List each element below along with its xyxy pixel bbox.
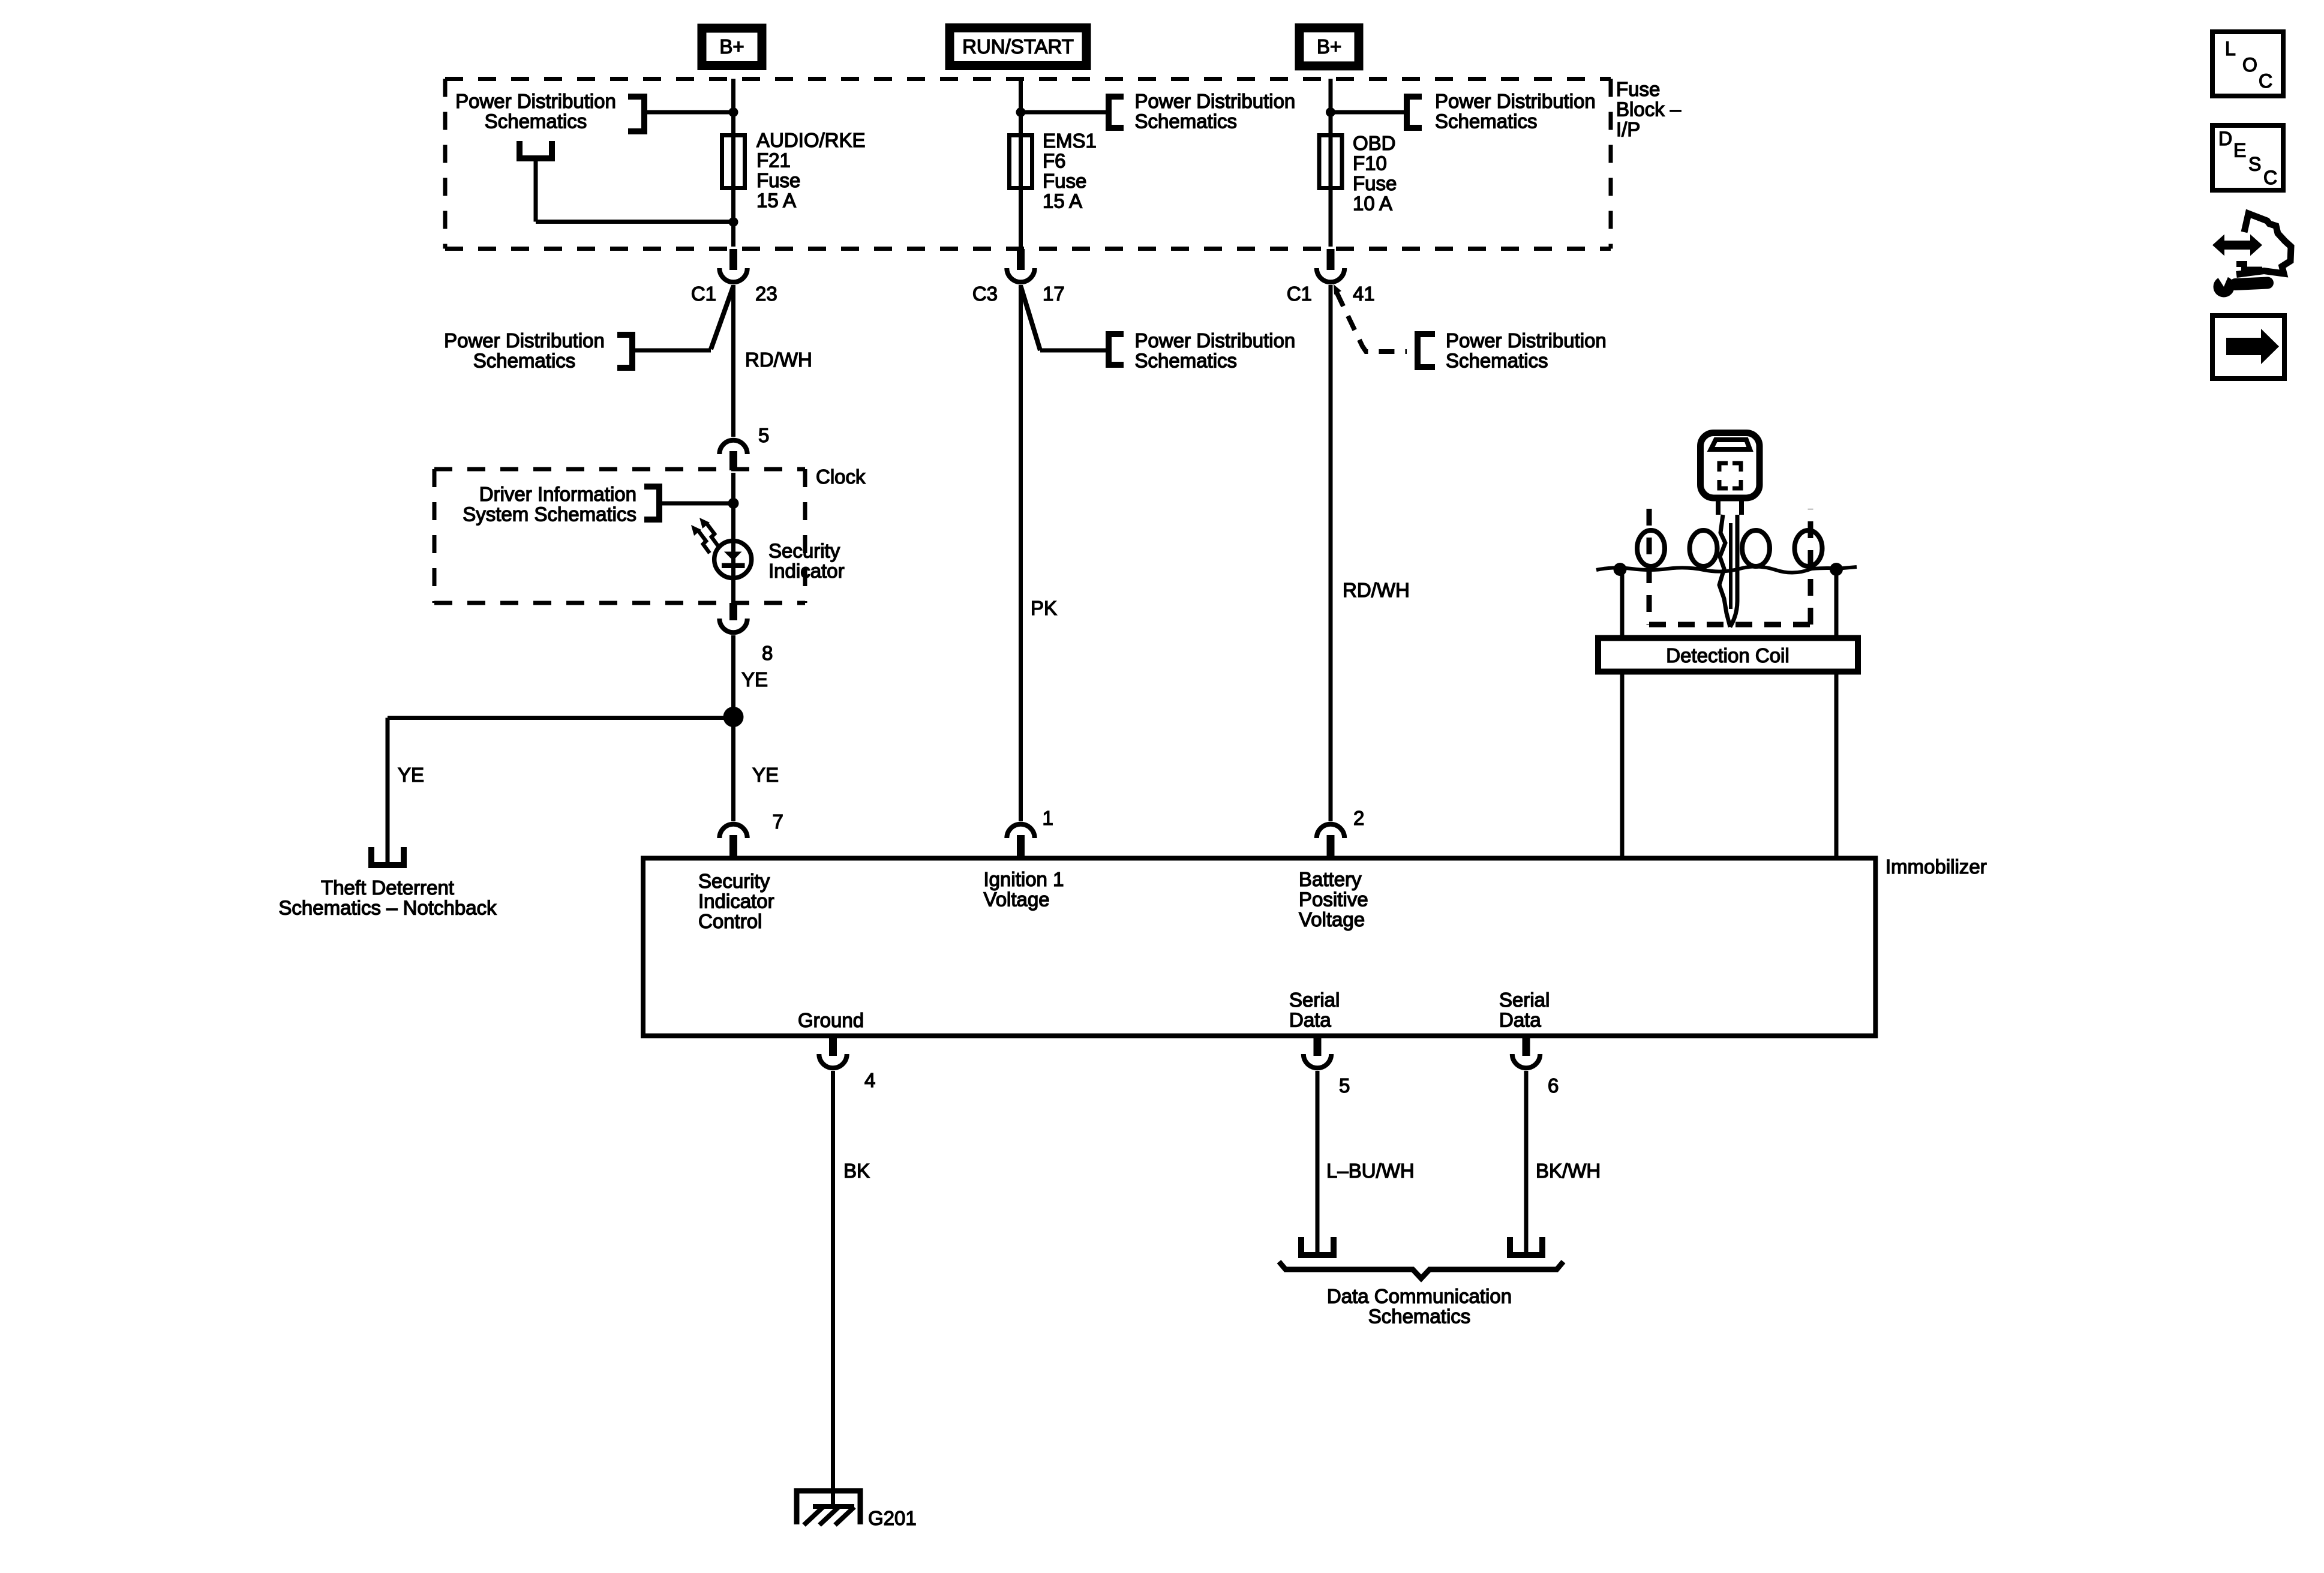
svg-text:Data: Data: [1499, 1009, 1541, 1031]
svg-text:F21: F21: [756, 149, 791, 172]
svg-text:I/P: I/P: [1616, 118, 1640, 140]
svg-text:Schematics: Schematics: [473, 350, 576, 372]
svg-text:OBD: OBD: [1353, 132, 1396, 154]
svg-text:Schematics: Schematics: [1135, 110, 1238, 133]
svg-text:Fuse: Fuse: [1353, 172, 1397, 194]
svg-text:Power Distribution: Power Distribution: [1446, 329, 1607, 352]
svg-text:Ground: Ground: [798, 1009, 864, 1031]
svg-text:4: 4: [864, 1069, 875, 1091]
svg-text:AUDIO/RKE: AUDIO/RKE: [756, 129, 866, 151]
svg-text:Security: Security: [698, 870, 770, 892]
svg-text:Schematics: Schematics: [1446, 350, 1548, 372]
svg-text:Clock: Clock: [816, 466, 866, 488]
svg-text:F10: F10: [1353, 152, 1387, 175]
svg-text:D: D: [2218, 128, 2232, 149]
svg-text:RD/WH: RD/WH: [745, 349, 812, 371]
svg-text:Control: Control: [698, 910, 762, 932]
svg-text:Theft Deterrent: Theft Deterrent: [321, 876, 454, 899]
svg-text:15 A: 15 A: [756, 190, 796, 212]
svg-text:Power Distribution: Power Distribution: [1135, 90, 1296, 112]
svg-text:RD/WH: RD/WH: [1343, 579, 1410, 601]
svg-text:Schematics – Notchback: Schematics – Notchback: [278, 897, 497, 919]
svg-text:6: 6: [1548, 1074, 1559, 1097]
svg-text:15 A: 15 A: [1043, 190, 1082, 212]
svg-text:Driver Information: Driver Information: [479, 483, 636, 505]
svg-text:Immobilizer: Immobilizer: [1885, 855, 1987, 878]
svg-text:Voltage: Voltage: [1299, 908, 1365, 930]
svg-text:C: C: [2263, 167, 2277, 188]
svg-text:Schematics: Schematics: [485, 110, 587, 133]
svg-text:Fuse: Fuse: [756, 169, 800, 191]
svg-text:Schematics: Schematics: [1368, 1305, 1471, 1328]
svg-text:10 A: 10 A: [1353, 193, 1392, 215]
svg-text:YE: YE: [752, 764, 779, 786]
svg-text:23: 23: [755, 283, 777, 305]
svg-text:F6: F6: [1043, 150, 1066, 172]
svg-text:G201: G201: [868, 1507, 917, 1529]
svg-text:Serial: Serial: [1499, 989, 1550, 1011]
svg-text:Power Distribution: Power Distribution: [1135, 329, 1296, 352]
svg-text:Power Distribution: Power Distribution: [455, 90, 616, 112]
svg-text:Power Distribution: Power Distribution: [1435, 90, 1596, 112]
svg-text:System Schematics: System Schematics: [463, 503, 636, 525]
svg-text:C: C: [2259, 70, 2272, 92]
svg-text:7: 7: [773, 810, 783, 833]
svg-text:Indicator: Indicator: [768, 560, 845, 582]
svg-text:RUN/START: RUN/START: [962, 35, 1074, 58]
svg-text:YE: YE: [741, 668, 768, 691]
svg-text:Indicator: Indicator: [698, 890, 774, 912]
svg-text:B+: B+: [719, 35, 744, 58]
svg-text:Voltage: Voltage: [984, 888, 1050, 910]
svg-text:O: O: [2242, 54, 2257, 76]
svg-text:1: 1: [1043, 807, 1053, 829]
svg-text:Serial: Serial: [1289, 989, 1340, 1011]
svg-text:8: 8: [762, 642, 773, 664]
svg-text:Fuse: Fuse: [1043, 170, 1086, 192]
svg-text:2: 2: [1353, 807, 1364, 829]
svg-text:Data Communication: Data Communication: [1327, 1285, 1512, 1307]
svg-text:C1: C1: [691, 283, 716, 305]
svg-text:5: 5: [758, 424, 769, 446]
svg-text:Data: Data: [1289, 1009, 1331, 1031]
svg-text:5: 5: [1339, 1074, 1350, 1097]
svg-text:C1: C1: [1287, 283, 1312, 305]
svg-text:Positive: Positive: [1299, 888, 1368, 910]
svg-text:17: 17: [1043, 283, 1065, 305]
svg-text:L: L: [2225, 38, 2236, 59]
svg-text:PK: PK: [1031, 597, 1057, 619]
svg-text:S: S: [2248, 154, 2261, 175]
svg-text:Security: Security: [768, 540, 840, 562]
svg-text:Ignition 1: Ignition 1: [984, 868, 1064, 890]
svg-text:BK: BK: [843, 1160, 870, 1182]
svg-text:41: 41: [1353, 283, 1375, 305]
svg-text:Battery: Battery: [1299, 868, 1362, 890]
svg-text:YE: YE: [398, 764, 424, 786]
svg-text:C3: C3: [972, 283, 998, 305]
svg-text:BK/WH: BK/WH: [1536, 1160, 1601, 1182]
svg-text:Detection Coil: Detection Coil: [1666, 644, 1789, 667]
svg-text:Block –: Block –: [1616, 98, 1682, 121]
svg-text:B+: B+: [1317, 35, 1341, 58]
svg-text:Schematics: Schematics: [1135, 350, 1238, 372]
svg-text:Fuse: Fuse: [1616, 78, 1660, 100]
svg-text:EMS1: EMS1: [1043, 130, 1097, 152]
svg-text:L–BU/WH: L–BU/WH: [1326, 1160, 1415, 1182]
svg-text:Schematics: Schematics: [1435, 110, 1538, 133]
svg-text:E: E: [2233, 140, 2246, 161]
svg-text:Power Distribution: Power Distribution: [444, 329, 605, 352]
